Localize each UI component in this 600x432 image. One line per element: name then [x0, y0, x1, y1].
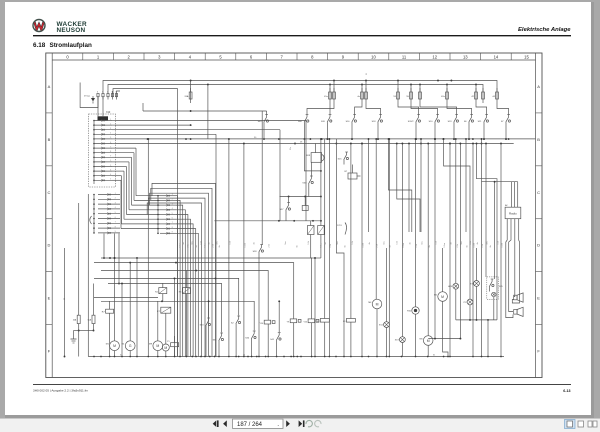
svg-text:15a: 15a — [290, 147, 292, 150]
svg-text:S41: S41 — [270, 339, 275, 341]
wire distribution h6 — [94, 296, 158, 298]
connector X10 internal bus — [93, 121, 95, 185]
svg-text:30: 30 — [64, 298, 66, 300]
svg-text:4: 4 — [110, 133, 111, 135]
svg-text:4: 4 — [115, 207, 116, 209]
svg-text:1.5sw: 1.5sw — [362, 242, 364, 247]
diode module V9 — [318, 226, 325, 235]
valve Y10 — [264, 320, 271, 324]
motor M9 — [153, 341, 163, 351]
svg-text:A2: A2 — [505, 204, 508, 207]
svg-text:40A: 40A — [73, 319, 77, 322]
svg-text:55: 55 — [406, 96, 409, 98]
svg-text:S37: S37 — [280, 209, 285, 211]
svg-text:X19: X19 — [395, 340, 400, 342]
motor M10 — [162, 344, 169, 351]
svg-text:4br: 4br — [476, 242, 479, 245]
svg-text:H20: H20 — [448, 286, 453, 288]
svg-text:12: 12 — [432, 54, 437, 59]
svg-text:A: A — [48, 84, 51, 89]
svg-text:6br: 6br — [218, 245, 221, 248]
svg-text:4br: 4br — [253, 242, 256, 245]
svg-text:F: F — [537, 349, 540, 354]
svg-text:Y10: Y10 — [259, 323, 264, 325]
fuse F1 40A main — [78, 203, 80, 315]
wire distribution h7 — [101, 301, 254, 330]
svg-text:P3: P3 — [464, 302, 467, 304]
wire terminal feed left drop — [117, 91, 121, 97]
switch S28 — [258, 254, 260, 257]
svg-text:E11: E11 — [379, 325, 384, 327]
wire M1 feed — [114, 258, 116, 341]
wire S10 to bus — [434, 127, 436, 139]
wire trunk x460 — [459, 144, 461, 339]
wire distribution h4 — [94, 278, 239, 315]
layout two page button — [588, 421, 597, 427]
svg-text:15: 15 — [524, 54, 529, 59]
toolbar first page button — [213, 420, 219, 427]
svg-text:42a: 42a — [441, 96, 445, 98]
fuse F2 inline — [320, 319, 329, 323]
wire S21 to bus — [483, 127, 485, 139]
fuse F13 — [419, 85, 421, 93]
svg-text:187 / 264: 187 / 264 — [237, 422, 263, 428]
toolbar page number field — [233, 419, 284, 428]
lamp H20 — [455, 139, 457, 283]
svg-text:1: 1 — [110, 119, 111, 121]
svg-text:6: 6 — [115, 217, 116, 219]
wire vertical x207.9 from bus — [207, 85, 209, 140]
wire S16 to bus — [351, 127, 353, 139]
svg-text:E: E — [48, 296, 51, 301]
switch unit S35 dashed box — [487, 277, 499, 299]
svg-text:S20/2: S20/2 — [408, 121, 414, 123]
svg-text:M2: M2 — [434, 295, 438, 297]
sensor S98 — [302, 206, 308, 211]
svg-text:6br: 6br — [465, 245, 468, 248]
svg-text:1.5b: 1.5b — [396, 241, 398, 244]
fuse F16 — [482, 88, 484, 92]
svg-text:E: E — [537, 296, 540, 301]
layout continuous button — [578, 421, 584, 427]
fuse F5 20A — [190, 81, 192, 93]
svg-text:4: 4 — [189, 54, 192, 59]
svg-text:5: 5 — [115, 212, 116, 214]
svg-text:4br: 4br — [449, 242, 452, 245]
toolbar next page button — [286, 420, 290, 427]
wire 30 supply bus upper — [103, 81, 497, 94]
svg-text:2.5b: 2.5b — [212, 244, 214, 247]
svg-text:1.5sw: 1.5sw — [179, 242, 181, 247]
relay K5 — [159, 288, 167, 294]
svg-text:B19: B19 — [306, 155, 311, 157]
svg-text:M4: M4 — [368, 302, 372, 304]
wire fuse link — [79, 330, 94, 332]
svg-text:8: 8 — [110, 151, 111, 153]
svg-text:1sw: 1sw — [285, 241, 287, 245]
svg-text:M: M — [156, 344, 159, 348]
svg-text:4br: 4br — [324, 242, 327, 245]
svg-text:S60: S60 — [298, 121, 303, 123]
svg-text:2.5b: 2.5b — [187, 244, 189, 247]
svg-text:50A: 50A — [88, 319, 92, 322]
svg-text:5: 5 — [219, 54, 222, 59]
svg-text:15: 15 — [366, 73, 368, 75]
fuse F17 — [496, 88, 498, 92]
sensor B7 — [348, 173, 357, 179]
motor M4 — [375, 139, 377, 299]
junction dots on ground bus — [93, 356, 502, 358]
radio unit A2 — [505, 207, 521, 219]
motor M5 — [427, 144, 429, 336]
svg-text:S40: S40 — [258, 121, 263, 123]
connector X10 dashed enclosure — [89, 114, 116, 187]
svg-text:Y1: Y1 — [167, 341, 170, 343]
radio feed wires — [482, 181, 518, 183]
wire branch 30 left — [64, 248, 66, 357]
battery feed terminal strip 30/15 — [84, 92, 118, 104]
Wacker Neuson logo emblem — [33, 20, 45, 32]
valve Y25 — [308, 319, 315, 323]
svg-text:M5: M5 — [420, 339, 424, 341]
svg-text:Radio: Radio — [509, 212, 517, 216]
motor M2 — [442, 248, 444, 292]
svg-text:1: 1 — [115, 193, 116, 195]
svg-text:3: 3 — [115, 202, 116, 204]
frame inner right vertical — [535, 53, 537, 378]
svg-text:2.5b: 2.5b — [416, 244, 418, 247]
wire 15 supply bus lower — [108, 85, 483, 94]
svg-text:M: M — [113, 344, 116, 348]
svg-text:8: 8 — [311, 54, 314, 59]
svg-text:1.5sw: 1.5sw — [244, 242, 246, 247]
svg-text:7: 7 — [110, 146, 111, 148]
svg-text:1.5sw: 1.5sw — [403, 242, 405, 247]
svg-text:K6: K6 — [179, 292, 182, 294]
switch S7 — [505, 124, 507, 127]
wire vertical x122 — [121, 284, 123, 357]
svg-text:A: A — [537, 84, 540, 89]
svg-text:S28: S28 — [253, 251, 258, 253]
svg-text:7: 7 — [172, 222, 173, 224]
svg-text:2: 2 — [110, 165, 111, 167]
relay K7 — [161, 307, 171, 313]
svg-text:3: 3 — [158, 54, 161, 59]
svg-text:S30: S30 — [302, 183, 307, 185]
wire bus third level — [113, 89, 178, 357]
svg-text:9: 9 — [110, 156, 111, 158]
svg-text:2.5b: 2.5b — [377, 244, 379, 247]
svg-text:1sw: 1sw — [461, 241, 463, 245]
wire terminal drops into X10 — [97, 97, 99, 117]
svg-text:F2: F2 — [317, 321, 320, 323]
connector X12 pin block — [157, 194, 198, 357]
svg-text:5: 5 — [110, 137, 111, 139]
svg-text:4br: 4br — [408, 242, 411, 245]
wire distribution h3 — [101, 271, 268, 315]
svg-text:6: 6 — [172, 218, 173, 220]
svg-text:S35: S35 — [499, 286, 503, 288]
wire right of marker — [336, 139, 344, 262]
svg-text:1.5b: 1.5b — [497, 241, 499, 244]
relay K6 — [182, 288, 190, 294]
header rule — [33, 35, 571, 37]
svg-text:2: 2 — [115, 198, 116, 200]
wire vertical x174.5 — [174, 278, 176, 356]
switch S30 — [308, 186, 310, 189]
wire feed 15 left header — [143, 110, 267, 112]
connector X10 pin rows with exit wires — [93, 119, 115, 182]
svg-text:10: 10 — [371, 54, 376, 59]
switch S19 — [453, 124, 455, 127]
wire riser S12 — [278, 301, 280, 332]
svg-text:4: 4 — [172, 208, 173, 210]
switch S20/2 — [415, 124, 417, 127]
wire staircase B — [477, 144, 498, 320]
wire S20 to bus — [326, 127, 328, 139]
svg-text:4br: 4br — [207, 242, 210, 245]
svg-text:Stromlaufplan: Stromlaufplan — [50, 42, 92, 49]
wire S37 riser — [288, 197, 290, 203]
switch S15 — [343, 162, 345, 165]
svg-text:8: 8 — [115, 226, 116, 228]
svg-text:F: F — [48, 349, 51, 354]
wire M5 link header — [428, 338, 460, 340]
ground symbol left — [74, 330, 79, 332]
svg-text:B7: B7 — [344, 171, 347, 173]
svg-text:6br: 6br — [296, 245, 299, 248]
indicator H10 — [415, 139, 417, 307]
section heading 6.18 Stromlaufplan — [33, 42, 92, 49]
svg-text:6br: 6br — [489, 245, 492, 248]
svg-text:6br: 6br — [343, 245, 346, 248]
svg-text:5: 5 — [110, 179, 111, 181]
svg-text:41a: 41a — [324, 96, 328, 98]
wire staircase A to P3 — [444, 139, 470, 299]
svg-text:2: 2 — [110, 123, 111, 125]
wire M9 feed — [157, 301, 159, 340]
svg-text:S34: S34 — [245, 338, 250, 340]
junction dots on supply buses — [190, 80, 192, 82]
svg-text:1sw: 1sw — [216, 241, 218, 245]
svg-text:6-13: 6-13 — [563, 389, 570, 393]
svg-text:1: 1 — [97, 54, 100, 59]
fuse F3 inline — [346, 319, 355, 323]
wire M5 upper link — [434, 139, 436, 339]
motor M1 starter — [110, 341, 120, 351]
svg-text:3: 3 — [172, 203, 173, 205]
toolbar previous page button — [223, 420, 227, 427]
wire staircase D — [397, 144, 420, 233]
svg-text:1.5b: 1.5b — [435, 241, 437, 244]
connector X19 — [401, 144, 403, 337]
fuse F15 — [475, 85, 477, 93]
junction dots on mid buses — [147, 138, 149, 140]
svg-text:C: C — [537, 190, 540, 195]
svg-text:X10: X10 — [106, 111, 111, 114]
svg-text:57max: 57max — [84, 96, 90, 98]
ground bus 31 — [88, 356, 504, 358]
svg-text:3: 3 — [110, 128, 111, 130]
switch S10 — [434, 124, 436, 127]
valve Y9 — [290, 319, 297, 323]
lamp E7 — [476, 248, 478, 281]
svg-text:B: B — [537, 137, 540, 142]
top ruler bottom line — [52, 59, 535, 61]
wire vertical x148 — [147, 139, 149, 357]
svg-text:M: M — [427, 339, 430, 343]
switch S31 — [218, 343, 220, 346]
generator G1 — [125, 341, 135, 351]
frame inner left vertical — [51, 53, 53, 378]
svg-text:9: 9 — [115, 231, 116, 233]
svg-text:4br: 4br — [182, 242, 185, 245]
connector X11 pin block — [88, 193, 120, 357]
speaker B2 — [514, 295, 517, 300]
svg-text:S31: S31 — [213, 340, 218, 342]
svg-text:S20: S20 — [321, 121, 326, 123]
svg-text:11: 11 — [402, 54, 407, 59]
svg-text:2.5b: 2.5b — [482, 244, 484, 247]
misc labels along bus rows — [120, 137, 436, 356]
svg-text:1.5sw: 1.5sw — [501, 242, 503, 247]
wire distribution h2 — [94, 263, 294, 313]
svg-text:S21: S21 — [478, 121, 483, 123]
toolbar previous view button — [306, 420, 312, 426]
switch S20 — [326, 124, 328, 127]
svg-text:S7: S7 — [501, 121, 504, 123]
svg-text:2.5b: 2.5b — [330, 244, 332, 247]
wire S7 to bus — [505, 127, 507, 139]
pdf viewer bottom toolbar — [0, 418, 600, 432]
svg-text:3: 3 — [97, 92, 98, 94]
solenoid Y1 — [171, 343, 179, 347]
svg-text:D: D — [48, 243, 51, 248]
svg-text:Elektrische Anlage: Elektrische Anlage — [518, 27, 571, 33]
svg-text:2.5b: 2.5b — [457, 244, 459, 247]
fuse F14 — [446, 85, 448, 93]
svg-text:B: B — [48, 137, 51, 142]
wire stub terminal 4 — [112, 91, 114, 97]
wire S6 to bus — [468, 127, 470, 139]
switch S18 — [377, 124, 379, 127]
svg-text:S10: S10 — [429, 121, 434, 123]
svg-text:6.18: 6.18 — [33, 42, 46, 49]
svg-text:K7: K7 — [157, 311, 160, 313]
svg-text:13: 13 — [463, 54, 468, 59]
connector X10 body bar — [98, 116, 109, 120]
switch S41 — [276, 342, 278, 345]
svg-text:7: 7 — [281, 54, 284, 59]
svg-text:1211: 1211 — [337, 225, 342, 227]
svg-text:1sw: 1sw — [486, 241, 488, 245]
svg-text:44: 44 — [492, 96, 495, 98]
svg-text:1sw: 1sw — [383, 241, 385, 245]
switch S40 left — [263, 124, 265, 127]
svg-text:1.5b: 1.5b — [352, 241, 354, 244]
svg-text:S33: S33 — [200, 325, 205, 327]
wire battery minus branch — [80, 83, 98, 108]
switch S21 — [483, 124, 485, 127]
svg-text:6: 6 — [250, 54, 253, 59]
fuse F11 — [397, 81, 399, 93]
svg-text:1: 1 — [110, 160, 111, 162]
wire S18 to bus — [377, 127, 379, 139]
fuse F7 — [329, 85, 331, 93]
svg-text:6br: 6br — [428, 245, 431, 248]
switch S6 — [468, 124, 470, 127]
fuse F8 — [333, 81, 335, 93]
svg-text:1.5sw: 1.5sw — [204, 242, 206, 247]
wire header lower right — [456, 319, 497, 321]
svg-text:9: 9 — [172, 232, 173, 234]
svg-text:42: 42 — [471, 96, 474, 98]
switch S33 — [205, 328, 207, 331]
svg-text:6br: 6br — [389, 245, 392, 248]
switch S2 — [235, 326, 237, 329]
svg-text:1sw: 1sw — [421, 241, 423, 245]
wire S20/2 to bus — [415, 127, 417, 139]
svg-text:2: 2 — [128, 54, 131, 59]
wire vertical x137 — [136, 258, 138, 357]
wire distribution h5 — [108, 284, 222, 333]
svg-text:3: 3 — [110, 169, 111, 171]
speaker B3 — [514, 310, 517, 315]
svg-text:1.5b: 1.5b — [470, 241, 472, 244]
layout single page button active — [565, 420, 576, 429]
switch S37 — [285, 212, 287, 215]
switch S16 — [351, 124, 353, 127]
svg-text:S18: S18 — [372, 121, 377, 123]
svg-text:9: 9 — [342, 54, 345, 59]
svg-text:4br: 4br — [368, 242, 371, 245]
svg-text:C: C — [48, 190, 51, 195]
fuse F9 — [361, 85, 363, 93]
fuse F12 — [410, 85, 412, 93]
svg-text:2.5b: 2.5b — [269, 244, 271, 247]
top ruler ticks and column numbers 0-15 — [66, 53, 529, 60]
connector sleeve on X11 bus — [90, 216, 92, 224]
svg-text:M1: M1 — [106, 344, 110, 346]
svg-text:5: 5 — [172, 213, 173, 215]
svg-text:3H0 002 05 | Ausgabe 2.2 | 3fa: 3H0 002 05 | Ausgabe 2.2 | 3fa3s911.fm — [33, 389, 88, 393]
Wacker Neuson wordmark — [57, 21, 88, 34]
wire fan from X10 to field devices — [116, 121, 536, 357]
wire drop S28 long — [261, 111, 263, 245]
svg-text:S15: S15 — [338, 159, 343, 161]
svg-text:1.5b: 1.5b — [200, 241, 202, 244]
svg-text:6: 6 — [110, 142, 111, 144]
wire distribution h1 — [101, 258, 312, 319]
wire node header 196 — [280, 196, 321, 198]
svg-text:1.5b: 1.5b — [308, 241, 310, 244]
svg-text:M: M — [376, 302, 379, 306]
gauge P3 — [467, 299, 473, 305]
fuse F10 — [365, 81, 367, 93]
svg-text:Y9: Y9 — [287, 322, 290, 324]
buzzer B19 — [311, 153, 322, 163]
svg-text:20A: 20A — [184, 95, 188, 98]
svg-text:6br: 6br — [195, 245, 198, 248]
wire B19 to S30 — [310, 162, 312, 176]
footer rule — [33, 384, 571, 386]
svg-text:1.5b: 1.5b — [229, 241, 231, 244]
svg-text:S16: S16 — [346, 121, 351, 123]
wire S19 to bus — [453, 127, 455, 139]
diode module V7 — [308, 226, 315, 235]
wire nest between X12 and trunk — [147, 183, 215, 356]
svg-text:M9: M9 — [149, 344, 153, 346]
